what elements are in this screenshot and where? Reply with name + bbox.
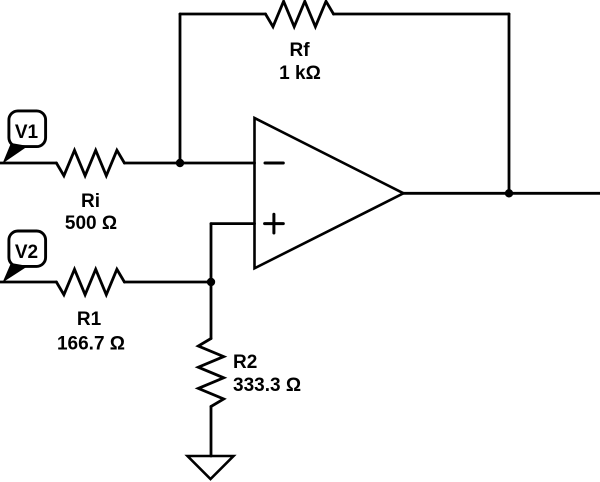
wire: R2 to ground: [210, 407, 213, 457]
wire: feedback left vertical (node A up): [179, 14, 182, 163]
svg-text:1 kΩ: 1 kΩ: [279, 63, 321, 84]
voltage source flag V1: [3, 111, 46, 164]
wire: V1 lead to Ri: [0, 162, 56, 165]
svg-text:R2: R2: [233, 352, 257, 373]
op-amp inverting input minus sign: [265, 162, 283, 165]
op-amp non-inverting input plus sign: [265, 222, 284, 225]
wire: node B down to R2: [210, 282, 213, 339]
node B junction dot: [207, 278, 215, 286]
op-amp U1: [255, 118, 404, 268]
resistor Rf: [266, 1, 334, 26]
svg-text:500 Ω: 500 Ω: [65, 213, 117, 234]
wire: op-amp output to right edge: [404, 192, 600, 195]
svg-text:Ri: Ri: [81, 191, 100, 212]
svg-text:V1: V1: [15, 122, 39, 143]
resistor R2: [198, 339, 223, 407]
svg-text:Rf: Rf: [289, 40, 310, 61]
resistor Ri: [56, 150, 124, 175]
wire: node A to op-amp inverting input: [180, 162, 255, 165]
voltage source flag V2: [3, 231, 46, 283]
wire: feedback right vertical down to output node: [508, 14, 511, 193]
svg-text:V2: V2: [15, 242, 38, 263]
resistor R1: [56, 269, 124, 294]
ground: [188, 456, 234, 479]
output node junction dot: [505, 189, 513, 197]
wire: node B up: [210, 224, 213, 282]
node A junction dot: [176, 159, 184, 167]
svg-text:333.3 Ω: 333.3 Ω: [233, 375, 301, 396]
svg-text:R1: R1: [77, 309, 102, 330]
svg-text:166.7 Ω: 166.7 Ω: [57, 333, 125, 354]
wire: R1 to node B: [124, 281, 211, 284]
wire: to op-amp non-inverting input: [211, 222, 255, 225]
wire: V2 lead to R1: [0, 281, 56, 284]
wire: top feedback left segment: [180, 13, 266, 16]
wire: Ri to node A: [124, 162, 180, 165]
wire: top feedback right segment: [334, 13, 510, 16]
